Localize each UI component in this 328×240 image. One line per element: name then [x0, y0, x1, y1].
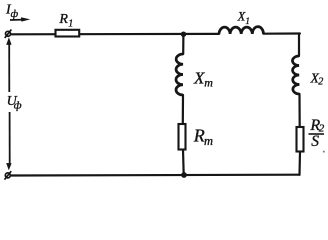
wire right branch lower — [298, 152, 301, 175]
speck artifact — [323, 151, 325, 153]
inductor X2 — [292, 56, 299, 94]
current arrow — [10, 19, 24, 21]
resistor R1 — [56, 30, 80, 37]
wire top horizontal — [11, 33, 220, 36]
voltage arrowhead up — [6, 37, 11, 45]
voltage arrow line upper segment — [8, 44, 10, 93]
svg-text:1: 1 — [245, 16, 250, 26]
svg-text:m: m — [204, 134, 213, 148]
resistor R2/S — [297, 127, 304, 152]
svg-text:ф: ф — [11, 9, 19, 20]
terminal top-left — [6, 31, 11, 36]
svg-text:R: R — [193, 126, 205, 146]
svg-text:S: S — [311, 133, 319, 150]
wire right branch upper — [298, 34, 300, 57]
wire right branch mid — [298, 94, 300, 127]
svg-text:m: m — [204, 75, 213, 89]
terminal bottom-left — [5, 173, 10, 178]
junction node top (Xm tap) — [181, 32, 186, 37]
inductor X1 — [219, 27, 264, 34]
svg-text:1: 1 — [68, 19, 73, 30]
svg-text:2: 2 — [319, 123, 325, 135]
svg-text:R: R — [58, 12, 68, 27]
junction node bottom (Xm return) — [181, 172, 187, 178]
svg-text:ф: ф — [14, 100, 22, 112]
wire bottom horizontal — [11, 174, 300, 177]
wire top right segment — [264, 32, 300, 34]
svg-text:X: X — [193, 69, 205, 88]
voltage arrowhead down — [6, 163, 11, 170]
wire middle branch upper — [182, 34, 184, 54]
inductor Xm — [176, 54, 183, 95]
wire middle branch lower — [182, 150, 185, 176]
voltage arrow line lower segment — [9, 112, 11, 164]
svg-text:2: 2 — [318, 77, 323, 88]
resistor Rm — [179, 124, 186, 150]
wire middle branch mid — [182, 95, 184, 124]
